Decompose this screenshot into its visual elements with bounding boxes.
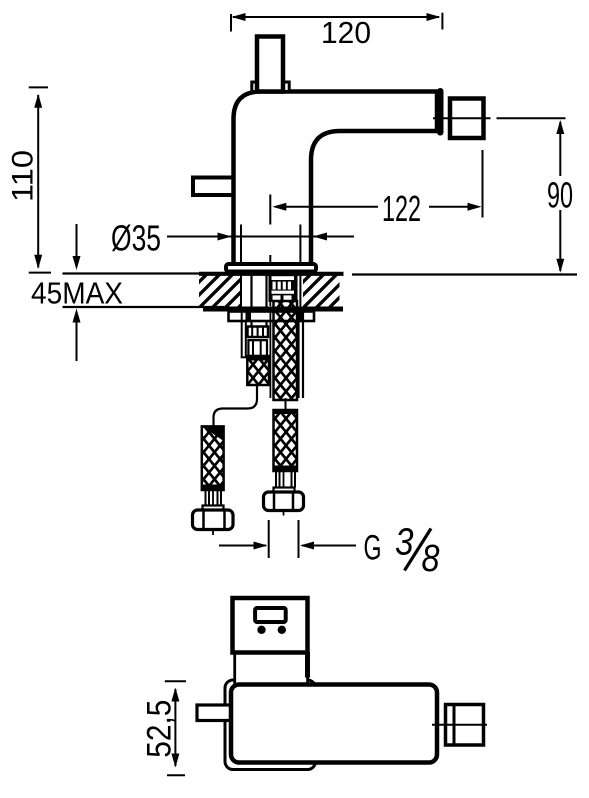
svg-text:52,5: 52,5 (141, 700, 179, 758)
svg-text:45MAX: 45MAX (31, 276, 123, 311)
svg-text:G: G (364, 529, 382, 568)
svg-text:3: 3 (395, 522, 414, 564)
svg-text:Ø35: Ø35 (111, 218, 161, 259)
svg-text:122: 122 (382, 188, 421, 229)
svg-text:110: 110 (7, 150, 40, 202)
svg-text:90: 90 (547, 175, 573, 216)
svg-text:8: 8 (422, 538, 440, 580)
svg-text:120: 120 (321, 15, 371, 50)
